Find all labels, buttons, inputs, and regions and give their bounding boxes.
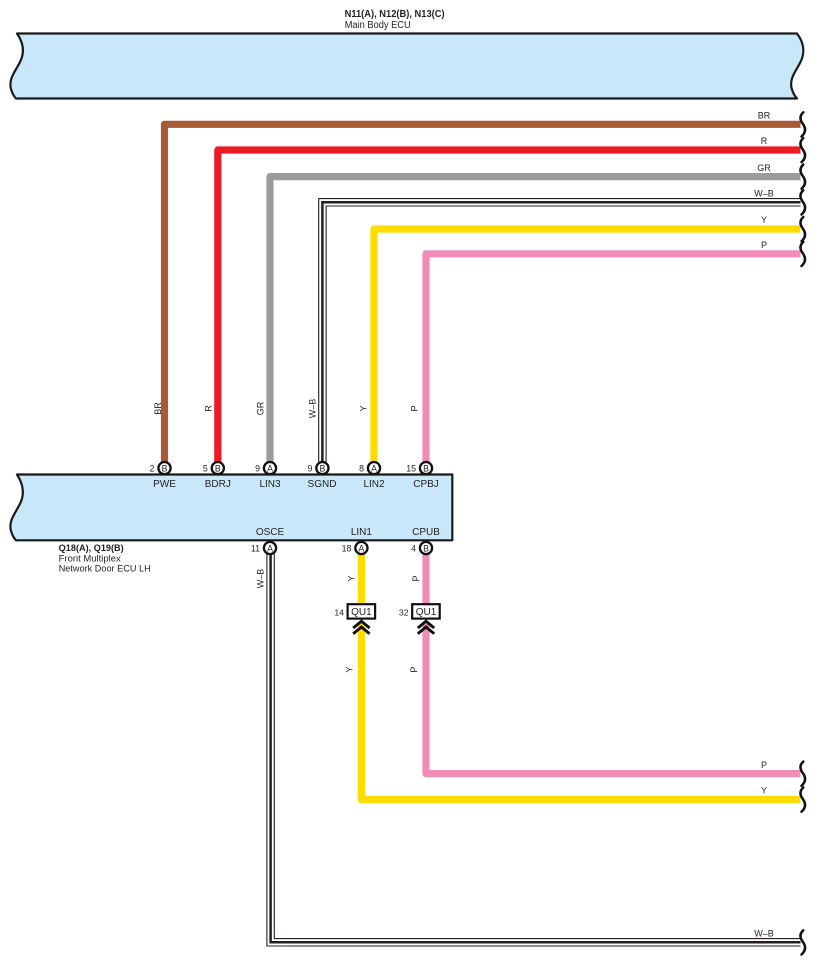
svg-text:QU1: QU1 bbox=[351, 607, 372, 618]
pin 5(B) BDRJ connector circle bbox=[203, 462, 224, 474]
svg-text:Q18(A), Q19(B): Q18(A), Q19(B) bbox=[59, 543, 124, 553]
svg-text:18: 18 bbox=[342, 544, 352, 554]
shield chevrons below 14 QU1 bbox=[353, 621, 369, 634]
svg-text:Main Body ECU: Main Body ECU bbox=[345, 20, 411, 31]
svg-text:CPUB: CPUB bbox=[412, 527, 440, 538]
shield chevrons below 32 QU1 bbox=[418, 621, 434, 634]
svg-text:QU1: QU1 bbox=[416, 607, 437, 618]
wire break symbol Y right bbox=[801, 217, 806, 241]
wire break symbol Y bottom right bbox=[801, 788, 806, 812]
wire break symbol BR right bbox=[801, 112, 806, 136]
svg-text:GR: GR bbox=[256, 401, 266, 415]
ECU N11/N12/N13 Main Body ECU box bbox=[10, 34, 803, 99]
wire Y from QU1 down and right bbox=[361, 624, 800, 800]
ECU Q18/Q19 Front Multiplex Network Door ECU LH box bbox=[10, 475, 452, 541]
svg-text:N11(A), N12(B), N13(C): N11(A), N12(B), N13(C) bbox=[345, 9, 445, 20]
svg-text:CPBJ: CPBJ bbox=[413, 479, 439, 490]
wire W-B from Main Body ECU to pin 9(B) SGND bbox=[322, 202, 800, 462]
pin 18(A) LIN1 connector circle bbox=[342, 542, 368, 554]
pin 9(B) SGND connector circle bbox=[307, 462, 328, 474]
svg-text:W–B: W–B bbox=[308, 399, 318, 419]
wire break symbol R right bbox=[801, 138, 806, 162]
svg-text:BR: BR bbox=[758, 111, 771, 121]
svg-text:B: B bbox=[423, 464, 429, 474]
svg-text:15: 15 bbox=[406, 464, 416, 474]
svg-text:P: P bbox=[761, 760, 767, 770]
wire W-B from pin 11(A) OSCE down and right bbox=[271, 548, 801, 942]
svg-text:P: P bbox=[761, 240, 767, 250]
wire break symbol W-B bottom right bbox=[801, 930, 806, 954]
pin 8(A) LIN2 connector circle bbox=[359, 462, 380, 474]
pin 2(B) PWE connector circle bbox=[150, 462, 171, 474]
svg-text:A: A bbox=[267, 464, 273, 474]
svg-text:9: 9 bbox=[255, 464, 260, 474]
wire P from Main Body ECU to pin 15(B) CPBJ bbox=[426, 254, 801, 462]
svg-text:GR: GR bbox=[757, 163, 771, 173]
wire Y from Main Body ECU to pin 8(A) LIN2 bbox=[374, 229, 801, 462]
svg-text:Y: Y bbox=[345, 667, 355, 673]
svg-text:Y: Y bbox=[761, 786, 767, 796]
wire R from Main Body ECU to pin 5(B) BDRJ bbox=[218, 150, 801, 462]
svg-text:Network Door ECU LH: Network Door ECU LH bbox=[59, 562, 151, 573]
svg-text:BR: BR bbox=[153, 402, 163, 415]
svg-text:B: B bbox=[319, 464, 325, 474]
svg-text:B: B bbox=[162, 464, 168, 474]
wire P from pin 4(B) CPUB to QU1 bbox=[422, 548, 429, 604]
node N11 header label bbox=[345, 9, 445, 31]
svg-text:R: R bbox=[204, 405, 214, 412]
svg-text:Y: Y bbox=[359, 405, 369, 411]
svg-text:Y: Y bbox=[761, 215, 767, 225]
svg-text:5: 5 bbox=[203, 464, 208, 474]
svg-text:BDRJ: BDRJ bbox=[205, 479, 231, 490]
svg-text:A: A bbox=[358, 544, 364, 554]
svg-text:P: P bbox=[409, 667, 419, 673]
svg-text:14: 14 bbox=[334, 607, 344, 617]
pin 11(A) OSCE connector circle bbox=[251, 542, 276, 554]
svg-text:W–B: W–B bbox=[256, 569, 266, 589]
svg-text:9: 9 bbox=[307, 464, 312, 474]
svg-text:LIN3: LIN3 bbox=[259, 479, 281, 490]
wire break symbol P right bbox=[801, 242, 806, 266]
svg-text:W–B: W–B bbox=[754, 188, 774, 198]
svg-text:LIN1: LIN1 bbox=[351, 527, 373, 538]
svg-text:W–B: W–B bbox=[754, 928, 774, 938]
svg-text:PWE: PWE bbox=[153, 479, 176, 490]
wire break symbol P bottom right bbox=[801, 762, 806, 786]
wire break symbol W-B right bbox=[801, 190, 806, 214]
svg-text:32: 32 bbox=[399, 607, 409, 617]
svg-text:2: 2 bbox=[150, 464, 155, 474]
node Q18 header label bbox=[59, 543, 151, 574]
svg-text:P: P bbox=[411, 575, 421, 581]
svg-text:Y: Y bbox=[346, 575, 356, 581]
pin 4(B) CPUB connector circle bbox=[411, 542, 432, 554]
wire BR from Main Body ECU to pin 2(B) PWE bbox=[165, 124, 801, 462]
pin 9(A) LIN3 connector circle bbox=[255, 462, 276, 474]
wire break symbol GR right bbox=[801, 165, 806, 189]
connector 14 QU1 on Y wire bbox=[334, 604, 375, 618]
svg-text:B: B bbox=[215, 464, 221, 474]
svg-text:4: 4 bbox=[411, 544, 416, 554]
svg-text:OSCE: OSCE bbox=[256, 527, 285, 538]
connector 32 QU1 on P wire bbox=[399, 604, 440, 618]
wire P from QU1 down and right bbox=[426, 624, 801, 774]
svg-text:LIN2: LIN2 bbox=[363, 479, 385, 490]
svg-text:8: 8 bbox=[359, 464, 364, 474]
svg-text:P: P bbox=[410, 405, 420, 411]
svg-text:SGND: SGND bbox=[308, 479, 337, 490]
svg-text:A: A bbox=[267, 544, 273, 554]
wire Y from pin 18(A) LIN1 to QU1 bbox=[358, 548, 365, 604]
svg-text:R: R bbox=[761, 136, 768, 146]
pin 15(B) CPBJ connector circle bbox=[406, 462, 432, 474]
svg-text:B: B bbox=[423, 544, 429, 554]
svg-text:A: A bbox=[371, 464, 377, 474]
wire GR from Main Body ECU to pin 9(A) LIN3 bbox=[270, 177, 801, 462]
svg-text:11: 11 bbox=[251, 544, 260, 554]
